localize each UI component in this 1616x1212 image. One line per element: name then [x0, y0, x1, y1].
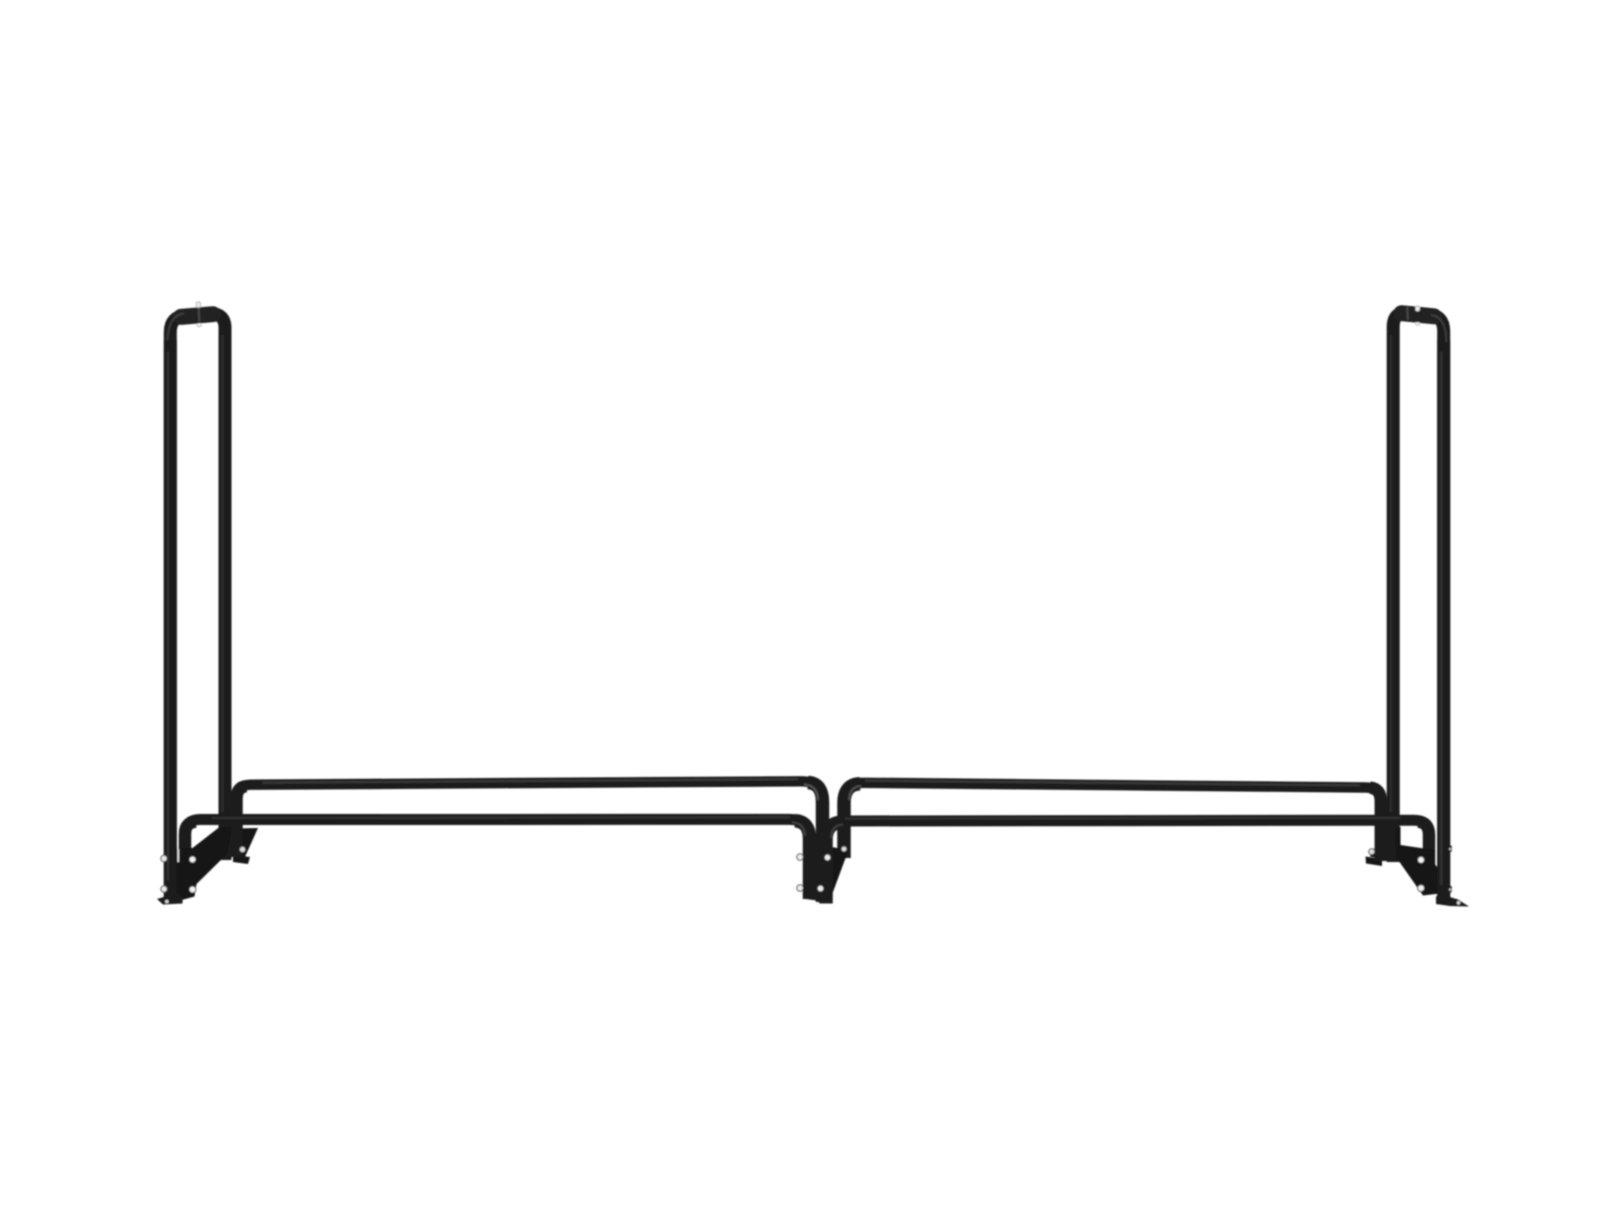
connector right top	[1406, 307, 1409, 320]
back foot left	[233, 855, 250, 864]
front foot right	[1436, 894, 1469, 907]
subtle highlights on legs	[167, 352, 169, 880]
front rail left section	[185, 819, 810, 898]
left end frame (U shape)	[170, 314, 225, 897]
center elbow highlights	[804, 785, 818, 801]
right front leg redraw (over bracket)	[1437, 340, 1450, 900]
back rail left section	[237, 781, 823, 902]
left front leg redraw (over bracket)	[164, 340, 177, 898]
front foot left	[157, 893, 183, 905]
center foot block	[806, 878, 820, 901]
front bracket left	[177, 827, 232, 902]
corner highlights	[168, 314, 185, 341]
connector left top	[198, 308, 201, 322]
back rail right section	[844, 783, 1381, 861]
front rail right section	[826, 820, 1429, 903]
front bracket right	[1396, 827, 1441, 896]
rivets left bracket	[161, 855, 167, 861]
subtle highlights on rails	[262, 779, 798, 783]
back foot right	[1366, 857, 1383, 867]
back bracket left	[232, 828, 258, 859]
left top bar thicker overdraw	[181, 314, 213, 317]
bolts on right leg edge	[1449, 846, 1452, 852]
rivets right bracket	[1418, 857, 1425, 864]
seam slit between left leg and elbow	[177, 849, 179, 862]
back bracket right	[1370, 849, 1377, 859]
rivets center	[797, 854, 803, 860]
center wedge bracket	[820, 845, 849, 897]
right top bar thicker overdraw	[1402, 313, 1435, 316]
right end frame (U shape)	[1393, 312, 1444, 900]
